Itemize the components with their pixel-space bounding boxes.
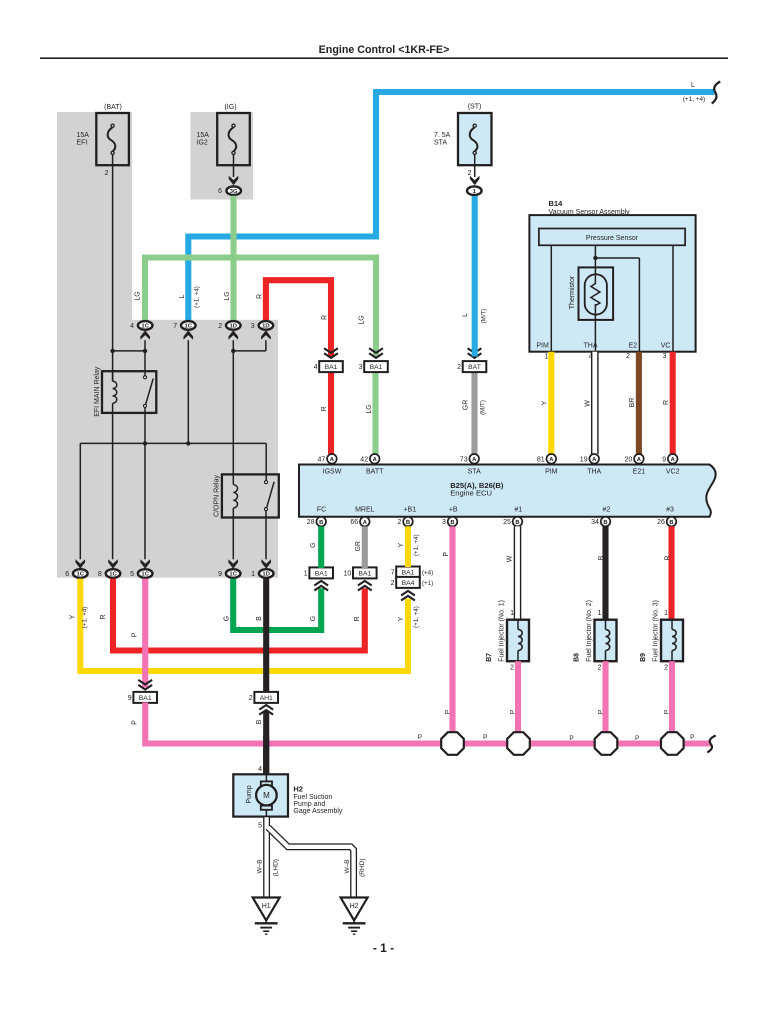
- label R top: [257, 294, 264, 299]
- pressure sensor box: [539, 229, 685, 246]
- svg-text:G: G: [310, 542, 317, 547]
- label STA: [468, 469, 481, 476]
- svg-text:H1: H1: [262, 903, 271, 910]
- label H2 pump: [293, 784, 303, 793]
- wire B crossing bus: [263, 735, 269, 775]
- svg-text:L: L: [691, 82, 695, 89]
- pin 73 A STA: [460, 454, 479, 464]
- label pin 1 PIM: [545, 354, 549, 361]
- wire LG into BATT: [372, 373, 378, 454]
- svg-text:1C: 1C: [77, 572, 85, 578]
- wire relay bus horizontal: [80, 442, 266, 444]
- label (M/T) ST column: [481, 309, 488, 324]
- svg-text:AH1: AH1: [260, 695, 273, 702]
- connector 1C pin 6: [65, 569, 87, 578]
- svg-text:P: P: [418, 734, 422, 741]
- svg-text:2: 2: [626, 353, 630, 360]
- junction dot 1C4 column: [143, 349, 147, 353]
- svg-text:7: 7: [173, 323, 177, 330]
- label B lower: [256, 719, 263, 724]
- svg-text:Fuel Injector (No. 2): Fuel Injector (No. 2): [586, 600, 593, 662]
- svg-text:Fuel Suction: Fuel Suction: [293, 794, 332, 801]
- svg-text:1: 1: [510, 610, 514, 617]
- svg-text:6: 6: [218, 188, 222, 195]
- pin 42 A BATT: [360, 454, 379, 464]
- svg-text:1C: 1C: [185, 324, 193, 330]
- label LG on 3G wire: [224, 291, 231, 300]
- svg-text:EFI: EFI: [77, 139, 88, 146]
- wire 1D2-1D3 link: [233, 340, 266, 351]
- pin 2 B +B1: [397, 517, 412, 527]
- svg-text:STA: STA: [434, 139, 447, 146]
- pin 28 B FC: [307, 517, 326, 527]
- svg-text:EFI MAIN Relay: EFI MAIN Relay: [94, 366, 101, 417]
- wire B from 2 AH1 to pump: [263, 711, 269, 775]
- svg-text:2: 2: [598, 665, 602, 672]
- svg-text:BA1: BA1: [402, 569, 415, 576]
- svg-text:B: B: [603, 520, 607, 526]
- pin 20 A E21: [625, 454, 644, 464]
- svg-text:Vacuum Sensor Assembly: Vacuum Sensor Assembly: [549, 209, 631, 216]
- label Pressure Sensor: [586, 235, 639, 242]
- arrows below 2 AH1: [259, 705, 273, 715]
- label (+1, +4) right column: [413, 606, 420, 628]
- svg-text:2: 2: [468, 170, 472, 177]
- svg-text:26: 26: [657, 519, 665, 526]
- arrows into 9 BA1: [138, 680, 152, 690]
- svg-text:B: B: [515, 520, 519, 526]
- relay EFI MAIN switch: [144, 376, 154, 408]
- wire BR E21: [636, 352, 642, 454]
- wire W THA: [591, 352, 599, 454]
- label #2: [603, 507, 611, 514]
- label Pump and: [293, 801, 325, 808]
- junction octagon 2: [507, 732, 530, 755]
- label Gage Assembly: [293, 808, 343, 815]
- label (+1, +4) left: [82, 607, 89, 629]
- wire from EFI fuse pin 2: [112, 155, 114, 382]
- svg-text:1: 1: [304, 570, 308, 577]
- svg-text:Engine ECU: Engine ECU: [450, 489, 492, 498]
- arrow into 1C pin 6: [76, 559, 86, 568]
- svg-text:B: B: [450, 520, 454, 526]
- label +B: [449, 507, 458, 514]
- svg-text:(M/T): (M/T): [480, 400, 487, 415]
- connector 1 BA1: [304, 567, 333, 578]
- svg-text:#2: #2: [603, 507, 611, 514]
- svg-text:P: P: [483, 734, 487, 741]
- junction octagon 3: [595, 732, 618, 755]
- label P col inj2: [598, 710, 605, 714]
- label Y right column: [398, 616, 405, 621]
- label W THA: [584, 400, 591, 407]
- thermistor outer box: [579, 267, 614, 320]
- fuel injector B9 No.3: [640, 600, 683, 671]
- svg-text:1D: 1D: [262, 572, 270, 578]
- wire W-B RHD: [268, 827, 354, 897]
- svg-text:PIM: PIM: [536, 343, 549, 350]
- svg-text:BA1: BA1: [325, 364, 338, 371]
- gray harness region main block: [57, 320, 278, 578]
- thermistor zigzag: [591, 284, 600, 352]
- junction dot thermistor: [593, 256, 597, 260]
- svg-text:STA: STA: [468, 469, 481, 476]
- svg-text:B: B: [598, 555, 605, 560]
- svg-text:B: B: [406, 520, 410, 526]
- svg-text:BA4: BA4: [402, 580, 415, 587]
- svg-text:2: 2: [457, 364, 461, 371]
- label IGSW: [323, 469, 342, 476]
- connector 1C pin 9: [218, 569, 240, 578]
- gray harness region left column: [57, 112, 132, 322]
- label (+1, +4) at 1C pin 7: [194, 286, 201, 308]
- label +B1: [403, 507, 416, 514]
- label (LHD): [273, 859, 280, 876]
- svg-text:P: P: [132, 632, 139, 637]
- ground H1: [253, 898, 280, 935]
- svg-text:1C: 1C: [141, 324, 149, 330]
- svg-text:R: R: [354, 616, 361, 621]
- svg-text:(+1, +4): (+1, +4): [413, 534, 420, 556]
- wire R injector 3: [668, 526, 674, 620]
- connector 1C pin 8: [98, 569, 120, 578]
- label P bus 1: [418, 734, 422, 741]
- svg-text:28: 28: [307, 519, 315, 526]
- svg-text:R: R: [322, 315, 329, 320]
- svg-text:2: 2: [664, 665, 668, 672]
- svg-text:(+1): (+1): [422, 580, 433, 587]
- arrow into 1D pin 2: [229, 330, 239, 339]
- svg-text:G: G: [224, 616, 231, 621]
- thermistor capsule: [585, 274, 607, 314]
- junction dot bus at 5(1C) column: [143, 441, 147, 445]
- svg-text:9: 9: [128, 695, 132, 702]
- label Thermistor: [569, 275, 576, 309]
- svg-text:W–B: W–B: [344, 859, 351, 873]
- label FC: [317, 507, 326, 514]
- fuse 15A IG2 (IG): [197, 104, 250, 165]
- connector 1C pin 4: [130, 321, 152, 330]
- label VC2: [666, 469, 680, 476]
- svg-text:IGSW: IGSW: [323, 469, 342, 476]
- svg-text:BA1: BA1: [358, 570, 371, 577]
- label B injector 2: [598, 555, 605, 560]
- svg-text:GR: GR: [463, 400, 470, 411]
- wire Y from 6(1C) to +B1 connectors: [80, 579, 408, 671]
- label (+1, +4) +B1: [413, 534, 420, 556]
- svg-text:3: 3: [663, 353, 667, 360]
- junction dot 1D2: [231, 349, 235, 353]
- label (+1, +4) top right: [683, 96, 705, 103]
- label P bus 5: [690, 734, 694, 741]
- wire from IG2 fuse: [233, 155, 235, 178]
- label PIM pin: [536, 343, 549, 350]
- label VC pin: [661, 343, 671, 350]
- label L top right: [691, 82, 695, 89]
- svg-text:+B: +B: [449, 507, 458, 514]
- svg-text:19: 19: [580, 456, 588, 463]
- svg-text:Fuel Injector (No. 1): Fuel Injector (No. 1): [499, 600, 506, 662]
- label L ST column: [462, 313, 469, 317]
- label Pump: [246, 785, 253, 803]
- page number: [373, 941, 394, 955]
- label G FC: [310, 542, 317, 547]
- label P col inj3: [664, 710, 671, 714]
- svg-text:(+4): (+4): [422, 569, 433, 576]
- svg-text:3: 3: [359, 364, 363, 371]
- svg-text:Thermistor: Thermistor: [569, 275, 576, 309]
- svg-text:25: 25: [503, 519, 511, 526]
- arrow into connector 1: [470, 176, 480, 185]
- connector 3G: [218, 186, 241, 195]
- connector 2 BA4 (+1): [391, 577, 434, 588]
- wire LG from 3G down to 1D pin 2: [230, 196, 236, 320]
- wire GR MREL: [362, 526, 368, 568]
- svg-text:GR: GR: [355, 541, 362, 552]
- svg-text:2: 2: [510, 665, 514, 672]
- svg-text:R: R: [257, 294, 264, 299]
- svg-text:1: 1: [251, 571, 255, 578]
- wire R into IGSW: [328, 373, 334, 454]
- arrow into 1C pin 7: [184, 330, 194, 339]
- svg-text:(IG): (IG): [224, 104, 236, 111]
- arrow into 1C pin 8: [108, 559, 118, 568]
- svg-text:Y: Y: [398, 616, 405, 621]
- svg-text:G: G: [310, 616, 317, 621]
- label pin 3 VC: [663, 353, 667, 360]
- ground H2: [341, 898, 368, 935]
- svg-text:15A: 15A: [77, 132, 90, 139]
- svg-text:B14: B14: [549, 199, 564, 208]
- label G left: [224, 616, 231, 621]
- svg-text:Gage Assembly: Gage Assembly: [293, 808, 343, 815]
- wire L blue top feed: [188, 92, 714, 320]
- wire LG horizontal to ECU BATT: [145, 258, 376, 357]
- label EFI MAIN Relay: [94, 366, 101, 417]
- svg-text:7: 7: [391, 569, 395, 576]
- svg-text:LG: LG: [224, 291, 231, 300]
- wire L from connector 1 to 2 BAT: [472, 196, 478, 357]
- svg-text:BATT: BATT: [366, 469, 384, 476]
- pin 47 A IGSW: [318, 454, 337, 464]
- svg-text:L: L: [462, 313, 469, 317]
- fuse 7.5A STA (ST): [434, 104, 492, 178]
- break squiggle blue feed: [712, 82, 720, 104]
- svg-text:LG: LG: [366, 404, 373, 413]
- junction octagon 4: [661, 732, 684, 755]
- wire 1D2 down to C/OPN coil: [232, 340, 234, 484]
- connector 1C pin 7: [173, 321, 195, 330]
- label P above 9 BA1: [132, 632, 139, 637]
- svg-text:#1: #1: [515, 507, 523, 514]
- wire bus left to 6(1C): [79, 443, 81, 559]
- label P col inj1: [510, 710, 517, 714]
- svg-text:1: 1: [545, 354, 549, 361]
- svg-text:THA: THA: [584, 343, 598, 350]
- arrow into 1D pin 1: [261, 559, 271, 568]
- connector 9 BA1: [128, 692, 157, 703]
- wire THA internal upper: [594, 245, 596, 284]
- wire W injector 1: [514, 526, 522, 620]
- connector 3 BA1: [359, 361, 388, 372]
- svg-text:(M/T): (M/T): [481, 309, 488, 324]
- label P bus 3: [569, 735, 573, 742]
- label E21: [633, 469, 646, 476]
- gray harness region IG column: [191, 112, 254, 200]
- svg-text:P: P: [635, 735, 639, 742]
- wire E2 internal: [595, 258, 639, 352]
- fuel injector B8 No.2: [573, 600, 616, 671]
- connector 1D pin 3: [251, 321, 273, 330]
- svg-text:Pressure Sensor: Pressure Sensor: [586, 235, 639, 242]
- label W-B LHD: [257, 859, 264, 873]
- svg-text:H2: H2: [293, 784, 303, 793]
- svg-text:P: P: [132, 720, 139, 725]
- label R VC2: [663, 400, 670, 405]
- label PIM: [545, 469, 558, 476]
- svg-text:- 1 -: - 1 -: [373, 941, 394, 955]
- svg-text:PIM: PIM: [545, 469, 558, 476]
- svg-text:VC2: VC2: [666, 469, 680, 476]
- wire P +B to bus: [449, 526, 455, 743]
- svg-text:B8: B8: [573, 653, 580, 662]
- label pin 5 pump: [258, 823, 262, 830]
- svg-text:W: W: [584, 400, 591, 407]
- label pin 4 THA: [589, 354, 593, 361]
- label E2 pin: [629, 343, 638, 350]
- arrows into 2 BAT: [468, 348, 482, 358]
- svg-text:E2: E2: [629, 343, 638, 350]
- svg-text:(RHD): (RHD): [359, 858, 366, 876]
- svg-text:LG: LG: [135, 291, 142, 300]
- connector 2 AH1: [249, 692, 278, 703]
- label W injector 1: [507, 555, 514, 562]
- svg-text:(+1, +4): (+1, +4): [82, 607, 89, 629]
- label P below 9 BA1: [132, 720, 139, 725]
- arrow into connector 3G: [229, 176, 239, 185]
- svg-text:+B1: +B1: [403, 507, 416, 514]
- wire P injector 2 to bus: [602, 661, 608, 743]
- wire R from 1D pin 3 to 4 BA1: [266, 280, 331, 356]
- arrow into 1C pin 5: [140, 559, 150, 568]
- pin 81 A PIM: [537, 454, 556, 464]
- svg-text:9: 9: [662, 456, 666, 463]
- svg-text:BA1: BA1: [139, 695, 152, 702]
- arrows into 4 BA1: [324, 348, 338, 358]
- label Vacuum Sensor Assembly: [549, 209, 631, 216]
- svg-text:R: R: [321, 406, 328, 411]
- svg-text:P: P: [569, 735, 573, 742]
- label L at 1C pin 7: [179, 294, 186, 298]
- label B14: [549, 199, 564, 208]
- svg-text:VC: VC: [661, 343, 671, 350]
- label MREL: [355, 507, 375, 514]
- arrows below 2 BA4: [401, 591, 415, 601]
- label BR E21: [629, 398, 636, 408]
- wire R from 8(1C) to 10 BA1: [113, 579, 365, 651]
- svg-text:3: 3: [442, 519, 446, 526]
- arrow into 1C pin 4: [140, 330, 150, 339]
- label P +B: [443, 552, 450, 557]
- wire B from 1(1D) to 2 AH1: [263, 579, 269, 693]
- svg-text:IG2: IG2: [197, 139, 208, 146]
- wire G from 9(1C) to 1 BA1: [233, 579, 321, 630]
- label P bus 4: [635, 735, 639, 742]
- pin 9 A VC2: [662, 454, 677, 464]
- pin 25 B #1: [503, 517, 522, 527]
- label BATT: [366, 469, 384, 476]
- svg-text:20: 20: [625, 456, 633, 463]
- svg-text:#3: #3: [666, 507, 674, 514]
- svg-text:Y: Y: [398, 543, 405, 548]
- junction octagon 1: [441, 732, 464, 755]
- svg-text:2: 2: [391, 580, 395, 587]
- svg-text:Pump: Pump: [246, 785, 253, 803]
- wire Y +B1: [405, 526, 411, 567]
- relay C/OPN box: [222, 474, 279, 517]
- svg-text:8: 8: [98, 571, 102, 578]
- svg-text:W: W: [507, 555, 514, 562]
- svg-text:1C: 1C: [109, 572, 117, 578]
- relay EFI MAIN box: [102, 371, 156, 413]
- label #3: [666, 507, 674, 514]
- svg-text:2: 2: [105, 170, 109, 177]
- wire W-B LHD: [263, 817, 270, 897]
- label Y PIM: [542, 400, 549, 405]
- svg-text:B: B: [256, 616, 263, 621]
- connector 2 BAT: [457, 361, 486, 372]
- svg-text:(LHD): (LHD): [273, 859, 280, 876]
- svg-text:E21: E21: [633, 469, 646, 476]
- svg-text:6: 6: [65, 571, 69, 578]
- label R IGSW: [321, 406, 328, 411]
- wire P from 9 BA1 to ground bus: [145, 702, 711, 743]
- pin 19 A THA: [580, 454, 599, 464]
- wire P injector 1 to bus: [515, 661, 521, 743]
- svg-text:BA1: BA1: [315, 570, 328, 577]
- svg-text:3: 3: [251, 323, 255, 330]
- svg-text:P: P: [690, 734, 694, 741]
- pump motor: [256, 774, 277, 816]
- B14 vacuum sensor assembly box: [529, 215, 695, 352]
- connector 4 BA1: [314, 361, 343, 372]
- title Engine Control <1KR-FE>: [319, 44, 450, 56]
- svg-text:Fuel Injector (No. 3): Fuel Injector (No. 3): [653, 600, 660, 662]
- wire Y PIM: [548, 352, 554, 454]
- label Fuel Suction: [293, 794, 332, 801]
- arrow into 1C pin 9: [228, 559, 238, 568]
- svg-text:R: R: [100, 614, 107, 619]
- wire 1C4 to junction: [144, 340, 146, 377]
- svg-text:B: B: [256, 719, 263, 724]
- wire bus right to C/OPN switch: [265, 443, 267, 480]
- label (M/T) STA: [480, 400, 487, 415]
- svg-text:P: P: [510, 710, 517, 714]
- svg-text:FC: FC: [317, 507, 326, 514]
- svg-text:1C: 1C: [229, 572, 237, 578]
- label #1: [515, 507, 523, 514]
- connector 10 BA1: [344, 567, 377, 578]
- label LG left branch: [135, 291, 142, 300]
- svg-text:10: 10: [344, 570, 352, 577]
- pin 66 A MREL: [350, 517, 369, 527]
- wire VC internal: [672, 245, 674, 351]
- label C/OPN Relay: [214, 474, 221, 517]
- label GR MREL: [355, 541, 362, 552]
- svg-text:C/OPN Relay: C/OPN Relay: [214, 474, 221, 517]
- arrows below 10 BA1: [358, 581, 372, 591]
- wire C/OPN switch to 1(1D): [265, 511, 267, 559]
